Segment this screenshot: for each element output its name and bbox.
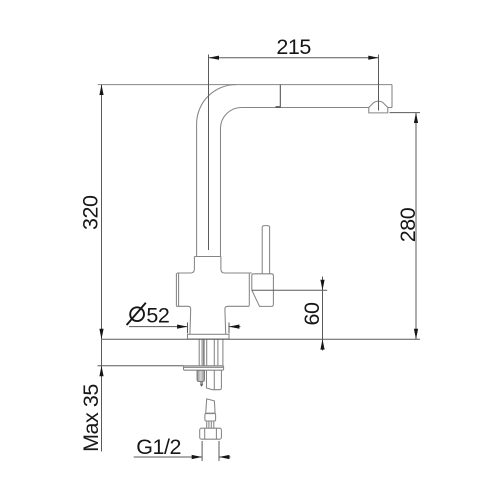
svg-text:215: 215 [276, 35, 311, 59]
svg-text:280: 280 [396, 207, 420, 242]
svg-text:60: 60 [300, 302, 324, 326]
svg-text:52: 52 [146, 304, 169, 328]
svg-text:320: 320 [79, 195, 103, 230]
svg-text:Max 35: Max 35 [79, 384, 103, 452]
svg-text:G1/2: G1/2 [136, 435, 181, 459]
